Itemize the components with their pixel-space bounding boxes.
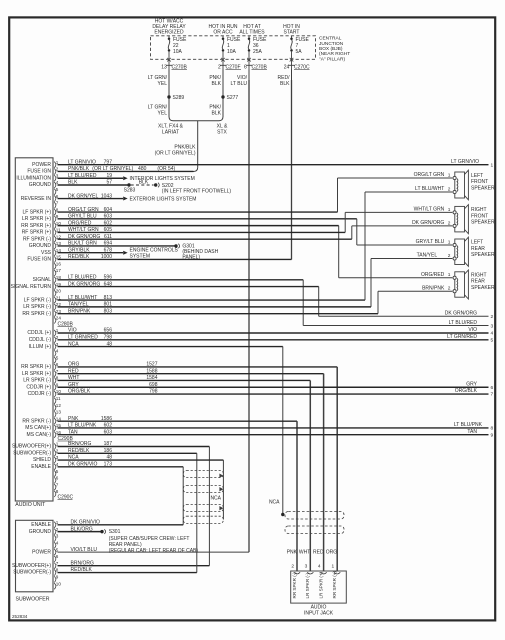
svg-text:13: 13 — [161, 64, 167, 70]
svg-text:7: 7 — [56, 201, 59, 206]
svg-text:4: 4 — [56, 349, 59, 354]
svg-text:813: 813 — [104, 295, 113, 301]
wire LT BLU/RED 596 (signal) to right edge pin 3 — [58, 274, 494, 329]
svg-text:POWER: POWER — [32, 549, 51, 555]
svg-text:RED: RED — [313, 550, 324, 556]
svg-text:LF SPKR (+): LF SPKR (+) — [23, 209, 52, 215]
svg-text:24: 24 — [284, 64, 290, 70]
svg-text:9: 9 — [491, 432, 494, 438]
svg-text:BRN/PNK: BRN/PNK — [422, 285, 445, 291]
svg-text:BRN/ORG: BRN/ORG — [71, 560, 94, 566]
svg-text:8: 8 — [491, 426, 494, 432]
svg-text:(OR LT GRN/YEL): (OR LT GRN/YEL) — [92, 166, 133, 172]
svg-text:FUSE IGN: FUSE IGN — [27, 257, 51, 263]
svg-text:1: 1 — [448, 239, 451, 245]
svg-text:BLK/LT GRN: BLK/LT GRN — [68, 241, 97, 247]
wire PNK/BLK (OR LT GRN/YEL) 480 (fuse ign) — [58, 166, 194, 172]
svg-text:12: 12 — [56, 403, 62, 408]
central junction box (dashed outline) — [151, 36, 316, 60]
subwoofer pins 1-10 — [12, 520, 61, 589]
wire VIO/LT BLU from fuse 36 to subwoofer power — [58, 70, 250, 553]
connector C290C label — [58, 494, 74, 500]
svg-text:TAN/YEL: TAN/YEL — [68, 302, 89, 308]
svg-text:RR SPKR (-): RR SPKR (-) — [292, 572, 297, 599]
wire NCA 48 (shield drain) — [58, 455, 224, 520]
wire DK GRN/ORG 648 (signal return) to right edge pin 2 — [58, 281, 494, 320]
svg-text:LT BLU/RED: LT BLU/RED — [68, 274, 97, 280]
svg-text:1588: 1588 — [146, 368, 157, 374]
wire PNK 1586 (RR SPKR -) to audio input jack pin 2 — [58, 416, 298, 571]
svg-text:605: 605 — [104, 227, 113, 233]
right front speaker — [453, 205, 495, 234]
svg-text:TAN/YEL: TAN/YEL — [417, 253, 438, 259]
svg-text:173: 173 — [104, 462, 113, 468]
svg-text:POWER: POWER — [32, 162, 51, 168]
svg-text:RED/BLK: RED/BLK — [68, 448, 90, 454]
audio input jack pin 1 (ORG) — [326, 550, 340, 599]
wire BRN/ORG (subwoofer +) label — [71, 560, 94, 566]
wire ORG/BLK 798 to right edge pin 7 — [58, 388, 494, 398]
svg-text:BLK: BLK — [212, 110, 222, 116]
svg-text:SPEAKER: SPEAKER — [471, 220, 495, 226]
wire ORG 1527 (RR SPKR +) to audio input jack pin 1 — [58, 362, 338, 571]
svg-text:4: 4 — [318, 564, 321, 570]
svg-text:BLK/ORG: BLK/ORG — [71, 526, 93, 532]
inline connector (dashed) upper — [285, 512, 344, 520]
svg-text:WHT/LT GRN: WHT/LT GRN — [68, 227, 99, 233]
left front speaker — [453, 170, 495, 200]
svg-text:3: 3 — [491, 323, 494, 329]
wire LT BLU/RED 19 (illumination) to interior lights system — [58, 173, 195, 182]
svg-text:8: 8 — [56, 568, 59, 573]
svg-text:REAR PANEL): REAR PANEL) — [109, 542, 142, 548]
svg-text:FUSE IGN: FUSE IGN — [27, 169, 51, 175]
svg-text:7: 7 — [491, 392, 494, 398]
svg-text:2: 2 — [448, 186, 451, 192]
svg-text:DK GRN/VIO: DK GRN/VIO — [68, 462, 98, 468]
svg-text:2: 2 — [448, 253, 451, 259]
svg-text:17: 17 — [56, 268, 62, 273]
svg-text:ORG/BLK: ORG/BLK — [68, 389, 91, 395]
svg-text:ORG: ORG — [68, 362, 80, 368]
wire WHT 1584 (LR SPKR -) to audio input jack pin 3 — [58, 375, 311, 571]
svg-text:(OR LT GRN/YEL): (OR LT GRN/YEL) — [155, 150, 196, 156]
svg-text:SPEAKER: SPEAKER — [471, 252, 495, 258]
wire BLK/LT GRN 694 (ground) — [58, 241, 175, 247]
wire NCA 48 (illum) to inline connector — [58, 341, 285, 516]
fuse F36 (36 25A) — [247, 36, 267, 62]
svg-text:LEFT: LEFT — [471, 173, 483, 179]
svg-text:ORG/BLK: ORG/BLK — [455, 388, 478, 394]
wire VIO 656 to right edge pin 4 — [58, 327, 494, 337]
wire ORG/LT GRN 604 (LF SPKR +) to left front speaker — [58, 172, 453, 213]
svg-text:GRY/LT BLU: GRY/LT BLU — [68, 214, 97, 220]
splice S277 — [221, 95, 238, 101]
svg-text:1: 1 — [448, 272, 451, 278]
svg-text:GRY: GRY — [68, 382, 79, 388]
wire GRY/BLK 678 (VSS) to engine controls system — [58, 247, 179, 259]
splice G301 (behind dash panel) — [174, 244, 218, 261]
svg-text:602: 602 — [104, 423, 113, 429]
svg-text:ORG/RED: ORG/RED — [68, 220, 92, 226]
svg-text:SUBWOOFER(+): SUBWOOFER(+) — [12, 563, 51, 569]
svg-text:S277: S277 — [227, 95, 239, 101]
svg-text:BLK: BLK — [280, 81, 290, 87]
svg-text:BRN/ORG: BRN/ORG — [68, 441, 91, 447]
wire RED/BLK from fuse 7 to pin 15 — [278, 70, 292, 260]
svg-text:1586: 1586 — [101, 416, 112, 422]
svg-text:797: 797 — [104, 159, 113, 165]
svg-text:19: 19 — [106, 173, 112, 179]
wire GRY 698 to right edge pin 6 — [58, 381, 494, 391]
svg-text:RED/BLK: RED/BLK — [68, 254, 90, 260]
wire TAN/YEL 801 (LR SPKR -) to left rear speaker — [58, 253, 453, 308]
svg-text:RR SPKR (-): RR SPKR (-) — [22, 311, 51, 317]
svg-text:GRY/LT BLU: GRY/LT BLU — [416, 239, 445, 245]
wire RED 1588 (LR SPKR +) to audio input jack pin 4 — [58, 368, 324, 571]
svg-text:DK GRN/ORG: DK GRN/ORG — [412, 220, 444, 226]
svg-text:INPUT JACK: INPUT JACK — [304, 610, 334, 616]
svg-text:798: 798 — [149, 389, 158, 395]
svg-text:BLK: BLK — [139, 180, 149, 186]
svg-text:LT GRN/VIO: LT GRN/VIO — [68, 159, 96, 165]
svg-text:FRONT: FRONT — [471, 213, 488, 219]
svg-text:5A: 5A — [296, 49, 303, 55]
svg-text:2: 2 — [491, 314, 494, 320]
svg-text:(REGULAR CAB: LEFT REAR OF CAB: (REGULAR CAB: LEFT REAR OF CAB) — [109, 548, 199, 554]
svg-text:PNK: PNK — [68, 416, 79, 422]
connector C290B label — [58, 436, 74, 442]
svg-text:LT GRN/RED: LT GRN/RED — [447, 334, 477, 340]
subwoofer box — [16, 520, 54, 602]
svg-text:LT GRN/VIO: LT GRN/VIO — [451, 159, 479, 165]
svg-text:BLK: BLK — [212, 81, 222, 87]
splice S301 (super cab/super crew left rear panel) — [100, 529, 198, 554]
svg-text:SYSTEM: SYSTEM — [130, 254, 151, 260]
svg-text:4: 4 — [56, 540, 59, 545]
wire RED/BLK 1000 (fuse ign) from fuse 7 — [58, 254, 292, 260]
fuse F22 (22 10A) — [167, 36, 187, 62]
audio input jack pin 3 (WHT) — [299, 550, 313, 599]
svg-text:2: 2 — [218, 64, 221, 70]
svg-text:10A: 10A — [173, 49, 183, 55]
svg-text:VSS: VSS — [41, 250, 52, 256]
svg-text:REVERSE IN: REVERSE IN — [21, 196, 52, 202]
wire RED/BLK 186 (subwoofer -) — [58, 448, 197, 573]
svg-text:1: 1 — [56, 520, 59, 525]
svg-text:1527: 1527 — [146, 362, 157, 368]
svg-text:STX: STX — [217, 129, 227, 135]
node HOT W/ACC DELAY RELAY ENERGIZED — [152, 18, 186, 35]
svg-text:SUBWOOFER(-): SUBWOOFER(-) — [13, 450, 51, 456]
svg-text:1: 1 — [332, 564, 335, 570]
connector C280B pins 1-16 — [21, 328, 61, 438]
svg-text:6: 6 — [244, 64, 247, 70]
svg-text:SHIELD: SHIELD — [33, 457, 51, 463]
svg-text:RED/BLK: RED/BLK — [71, 567, 93, 573]
svg-text:DK GRN/ORG: DK GRN/ORG — [68, 234, 100, 240]
shield arrowheads — [219, 474, 223, 511]
wire WHT/LT GRN 605 (RF SPKR +) to right front speaker — [58, 207, 453, 234]
svg-text:798: 798 — [104, 334, 113, 340]
svg-text:SUBWOOFER(-): SUBWOOFER(-) — [13, 570, 51, 576]
svg-text:LT BLU: LT BLU — [231, 81, 248, 87]
svg-text:ORG: ORG — [326, 550, 338, 556]
connector C270B pin 6 — [244, 61, 267, 70]
svg-text:LT BLU/RED: LT BLU/RED — [449, 320, 478, 326]
svg-text:TAN: TAN — [467, 429, 477, 435]
svg-text:RIGHT: RIGHT — [471, 207, 487, 213]
svg-text:REAR: REAR — [471, 279, 485, 285]
connector C270F pin 2 — [218, 61, 241, 70]
svg-text:801: 801 — [104, 302, 113, 308]
wire LT BLU/WHT 813 (LF SPKR -) to left front speaker — [58, 186, 453, 301]
svg-text:CDDJL (-): CDDJL (-) — [29, 337, 52, 343]
svg-text:MS CAN(+): MS CAN(+) — [25, 425, 51, 431]
svg-text:VIO: VIO — [68, 328, 77, 334]
svg-text:BLK: BLK — [68, 180, 78, 186]
op-amp U1 audio unit box — [15, 158, 53, 508]
svg-text:1043: 1043 — [101, 193, 112, 199]
wire LT GRN/YEL from fuse 22 — [148, 70, 169, 117]
svg-text:LT BLU/PNK: LT BLU/PNK — [454, 422, 483, 428]
wire GRY/LT BLU 603 (LR SPKR +) to left rear speaker — [58, 214, 453, 246]
svg-text:RF SPKR (-): RF SPKR (-) — [23, 236, 51, 242]
svg-text:SPEAKER: SPEAKER — [471, 185, 495, 191]
svg-text:SUBWOOFER(+): SUBWOOFER(+) — [12, 444, 51, 450]
wire LT GRN/VIO 797 (power) to right edge pin 1 — [58, 159, 494, 169]
svg-text:ALL TIMES: ALL TIMES — [239, 29, 265, 35]
svg-text:DK GRN/VIO: DK GRN/VIO — [71, 520, 101, 526]
svg-text:PNK: PNK — [287, 550, 298, 556]
svg-text:GROUND: GROUND — [29, 182, 52, 188]
svg-text:LR SPKR (-): LR SPKR (-) — [23, 304, 51, 310]
svg-text:NCA: NCA — [210, 496, 221, 502]
wire DK GRN/VIO 173 (enable) — [58, 462, 184, 525]
svg-text:CENTRAL: CENTRAL — [319, 36, 342, 42]
svg-text:24: 24 — [56, 316, 62, 321]
node HOT AT ALL TIMES — [239, 24, 265, 36]
wire LT GRN/RED 798 to right edge pin 5 — [58, 334, 494, 344]
svg-text:CDDJL (+): CDDJL (+) — [27, 330, 51, 336]
svg-text:611: 611 — [104, 234, 112, 240]
svg-text:GROUND: GROUND — [29, 243, 52, 249]
wire BRN/ORG 187 (subwoofer +) — [58, 441, 210, 566]
svg-text:(NEAR RIGHT: (NEAR RIGHT — [319, 51, 350, 57]
wire BLK 57 (ground) — [58, 180, 129, 186]
svg-text:5: 5 — [56, 547, 59, 552]
splice S283 — [124, 183, 136, 193]
svg-text:MS CAN(-): MS CAN(-) — [27, 432, 52, 438]
svg-text:WHT: WHT — [68, 375, 79, 381]
svg-text:2: 2 — [448, 220, 451, 226]
svg-text:RR SPKR (+): RR SPKR (+) — [21, 364, 51, 370]
svg-text:JUNCTION: JUNCTION — [319, 41, 344, 47]
svg-text:252834: 252834 — [12, 614, 28, 619]
svg-text:LR SPKR (+): LR SPKR (+) — [22, 216, 51, 222]
wire TAN 603 (MS CAN-) to right edge pin 9 — [58, 429, 494, 439]
svg-text:1: 1 — [491, 162, 494, 168]
svg-text:603: 603 — [104, 429, 113, 435]
svg-text:YEL: YEL — [158, 110, 168, 116]
svg-text:ORG/LT GRN: ORG/LT GRN — [68, 207, 99, 213]
svg-text:10: 10 — [56, 581, 62, 586]
svg-text:BRN/PNK: BRN/PNK — [68, 308, 91, 314]
svg-text:ILLUM (+): ILLUM (+) — [29, 344, 52, 350]
splice S202 (in left front footwell) — [154, 183, 231, 195]
svg-text:LR SPKR (-): LR SPKR (-) — [23, 378, 51, 384]
svg-text:25A: 25A — [253, 49, 263, 55]
svg-text:8: 8 — [56, 489, 59, 494]
svg-text:YEL: YEL — [158, 81, 168, 87]
svg-text:7: 7 — [56, 561, 59, 566]
svg-text:ENABLE: ENABLE — [31, 464, 51, 470]
svg-text:RF SPKR (+): RF SPKR (+) — [22, 230, 52, 236]
svg-text:648: 648 — [104, 281, 113, 287]
svg-text:LEFT: LEFT — [471, 240, 483, 246]
svg-text:LT BLU/WHT: LT BLU/WHT — [415, 186, 444, 192]
svg-text:S283: S283 — [124, 187, 136, 193]
svg-text:GRY: GRY — [466, 381, 477, 387]
svg-text:DK GRN/ORG: DK GRN/ORG — [445, 311, 477, 317]
svg-text:CDDJR (+): CDDJR (+) — [26, 384, 51, 390]
svg-text:694: 694 — [104, 241, 113, 247]
audio input jack pin 2 (PNK) — [287, 550, 300, 599]
svg-text:NCA: NCA — [68, 455, 79, 461]
svg-text:1584: 1584 — [146, 375, 157, 381]
svg-text:5: 5 — [491, 337, 494, 343]
svg-text:SIGNAL RETURN: SIGNAL RETURN — [11, 284, 52, 290]
inline connector (dashed) lower — [285, 526, 344, 534]
left rear speaker — [453, 237, 495, 266]
wire BRN/PNK 803 (RR SPKR -) to right rear speaker — [58, 285, 453, 314]
svg-text:FRONT: FRONT — [471, 179, 488, 185]
svg-text:480: 480 — [138, 166, 147, 172]
svg-text:1000: 1000 — [101, 254, 112, 260]
svg-text:TAN: TAN — [68, 429, 78, 435]
svg-text:AUDIO UNIT: AUDIO UNIT — [15, 502, 46, 508]
svg-text:RR SPKR (+): RR SPKR (+) — [21, 223, 51, 229]
svg-text:EXTERIOR LIGHTS SYSTEM: EXTERIOR LIGHTS SYSTEM — [130, 196, 197, 202]
central junction box label — [319, 36, 350, 63]
svg-text:CDDJR (-): CDDJR (-) — [28, 391, 52, 397]
svg-text:ENERGIZED: ENERGIZED — [154, 29, 184, 35]
svg-text:(OR 54): (OR 54) — [157, 166, 175, 172]
svg-text:LT GRN/RED: LT GRN/RED — [68, 334, 98, 340]
svg-text:6: 6 — [56, 476, 59, 481]
svg-text:SUBWOOFER: SUBWOOFER — [16, 597, 50, 603]
svg-text:678: 678 — [104, 247, 113, 253]
svg-text:3: 3 — [56, 534, 59, 539]
fuse F7 (7 5A) — [290, 36, 310, 62]
svg-text:BOX (BJB): BOX (BJB) — [319, 46, 343, 52]
svg-text:5: 5 — [56, 469, 59, 474]
svg-text:2: 2 — [448, 286, 451, 292]
svg-text:803: 803 — [104, 308, 113, 314]
svg-text:LR SPKR (+): LR SPKR (+) — [318, 571, 323, 598]
audio input jack pin 4 (RED) — [313, 550, 327, 599]
svg-text:LT BLU/PNK: LT BLU/PNK — [68, 423, 97, 429]
svg-text:LR SPKR (-): LR SPKR (-) — [305, 573, 310, 599]
svg-text:604: 604 — [104, 207, 113, 213]
svg-text:OR ACC: OR ACC — [213, 29, 233, 35]
svg-text:GROUND: GROUND — [29, 529, 52, 535]
svg-text:602: 602 — [104, 220, 113, 226]
right rear speaker — [453, 270, 495, 299]
svg-text:START: START — [284, 29, 300, 35]
wire DK GRN/VIO (enable) label — [71, 520, 101, 526]
wire DK GRN/ORG 611 (RF SPKR -) to right front speaker — [58, 220, 453, 240]
node HOT IN RUN OR ACC — [208, 24, 237, 36]
svg-text:"A" PILLAR): "A" PILLAR) — [319, 56, 345, 62]
svg-text:5: 5 — [56, 187, 59, 192]
svg-text:LT BLU/WHT: LT BLU/WHT — [68, 295, 97, 301]
svg-text:2: 2 — [291, 564, 294, 570]
svg-text:DK GRN/YEL: DK GRN/YEL — [68, 193, 99, 199]
wire LT BLU/PNK 602 (MS CAN+) to right edge pin 8 — [58, 422, 494, 432]
svg-text:603: 603 — [104, 214, 113, 220]
svg-text:LT BLU/RED: LT BLU/RED — [68, 173, 97, 179]
svg-text:DK GRN/ORG: DK GRN/ORG — [68, 281, 100, 287]
svg-text:RR SPKR (+): RR SPKR (+) — [332, 571, 337, 599]
svg-text:LR SPKR (+): LR SPKR (+) — [22, 371, 51, 377]
svg-text:ENABLE: ENABLE — [31, 522, 51, 528]
svg-text:656: 656 — [104, 328, 113, 334]
connector C290B pins 1-8 — [12, 442, 59, 497]
svg-text:5: 5 — [56, 355, 59, 360]
svg-text:48: 48 — [106, 455, 112, 461]
svg-text:PNK/BLK: PNK/BLK — [68, 166, 90, 172]
svg-text:187: 187 — [104, 441, 113, 447]
svg-text:48: 48 — [106, 341, 112, 347]
svg-text:RIGHT: RIGHT — [471, 272, 487, 278]
svg-text:VIO/LT BLU: VIO/LT BLU — [71, 547, 98, 553]
connector C270B pin 13 — [161, 61, 187, 70]
svg-text:WHT/LT GRN: WHT/LT GRN — [414, 207, 445, 213]
svg-text:RED: RED — [68, 368, 79, 374]
svg-text:10A: 10A — [227, 49, 237, 55]
node HOT IN START — [283, 24, 300, 36]
svg-text:13: 13 — [56, 410, 62, 415]
connector C280A pins 1-24 — [11, 160, 62, 324]
svg-text:6: 6 — [56, 554, 59, 559]
svg-text:3: 3 — [305, 564, 308, 570]
connector C280B label — [58, 321, 74, 327]
svg-text:RR SPKR (-): RR SPKR (-) — [22, 418, 51, 424]
svg-text:6: 6 — [491, 385, 494, 391]
splice S289 — [167, 95, 184, 101]
svg-text:(IN LEFT FRONT FOOTWELL): (IN LEFT FRONT FOOTWELL) — [162, 188, 232, 194]
svg-text:REAR: REAR — [471, 246, 485, 252]
svg-text:S301: S301 — [109, 529, 121, 535]
svg-text:LF SPKR (-): LF SPKR (-) — [24, 297, 52, 303]
svg-text:596: 596 — [104, 274, 113, 280]
wire BLK dashed to S202 — [131, 180, 154, 186]
svg-text:186: 186 — [104, 448, 113, 454]
svg-text:ILLUMINATION: ILLUMINATION — [16, 175, 51, 181]
wire ORG/RED 602 (RR SPKR +) to right rear speaker — [58, 220, 453, 278]
shield rings (dashed) around subwoofer wires — [183, 470, 223, 523]
svg-text:GRY/BLK: GRY/BLK — [68, 247, 90, 253]
svg-text:ORG/RED: ORG/RED — [421, 272, 445, 278]
svg-text:16: 16 — [56, 261, 62, 266]
wire DK GRN/YEL 1043 (reverse in) to exterior lights system — [58, 193, 197, 202]
svg-text:698: 698 — [149, 382, 158, 388]
fuse F1 (1 10A) — [221, 36, 241, 62]
svg-text:1: 1 — [448, 172, 451, 178]
svg-text:57: 57 — [106, 180, 112, 186]
svg-text:9: 9 — [56, 575, 59, 580]
